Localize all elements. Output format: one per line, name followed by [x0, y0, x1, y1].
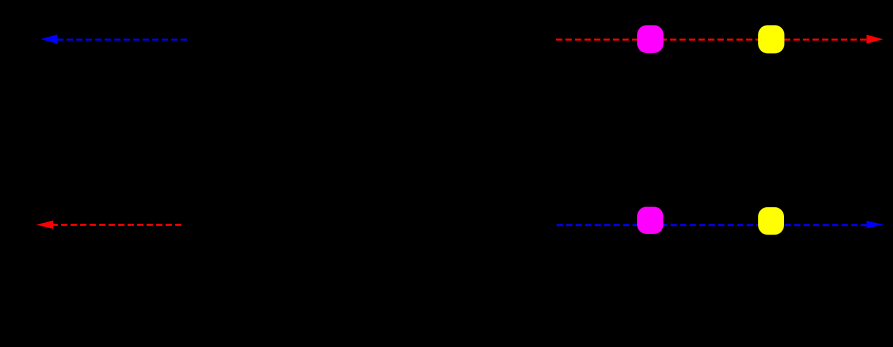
blue dashed arrow (middle-right, pointing right) [557, 221, 884, 229]
red dashed arrow (top-right, pointing right) [556, 35, 883, 44]
magenta particle (bottom) [637, 207, 663, 234]
yellow particle (top) [758, 25, 784, 53]
magenta particle (top) [637, 25, 663, 53]
yellow particle (bottom) [758, 207, 784, 235]
red dashed arrow (middle-left, pointing left) [36, 221, 181, 229]
blue dashed arrow (top-left, pointing left) [40, 34, 187, 43]
